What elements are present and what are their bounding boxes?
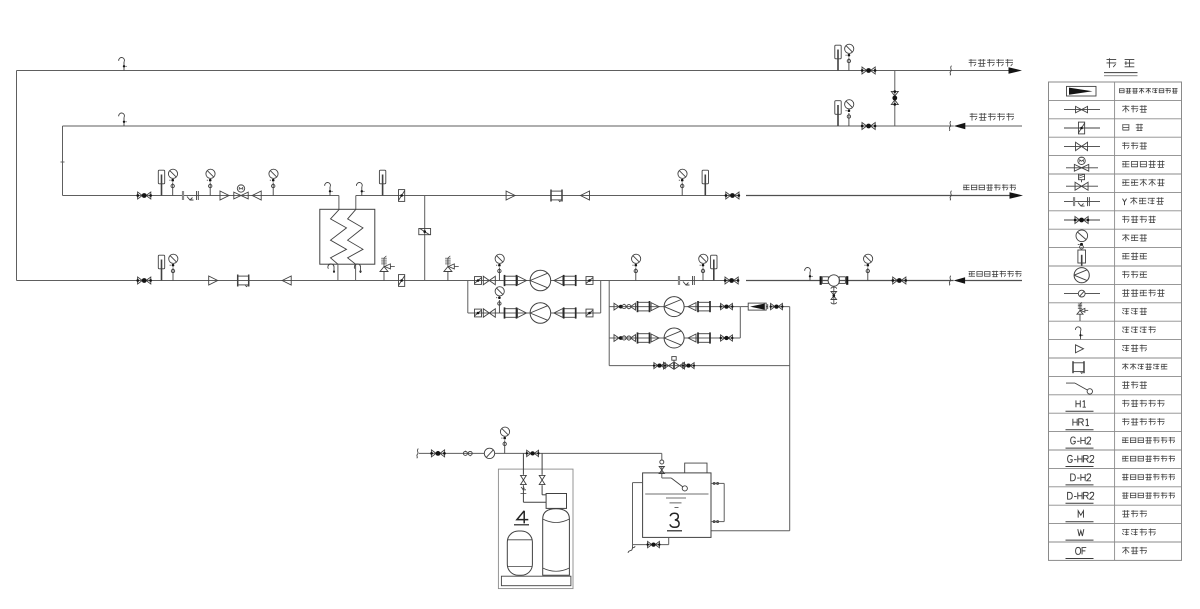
- wire pump group2 suction manifold: [608, 281, 610, 366]
- butterfly valve on bypass: [419, 229, 431, 235]
- safety valve SV2 on L4: [444, 256, 459, 281]
- welded ball valve on tap line: [430, 450, 446, 457]
- wire primary return main (L1): [17, 71, 1009, 281]
- pressure gauge on tap line: [500, 427, 509, 453]
- butterfly valve pump2 inlet: [475, 309, 482, 317]
- tank inlet pipe: [659, 453, 664, 478]
- legend label 超声波流量计: [1122, 363, 1167, 369]
- welded ball valve on L3a: [136, 192, 152, 199]
- safety valve SV1 on L4: [380, 256, 395, 281]
- reducer 2 on L4 left: [282, 276, 291, 285]
- reducer 2 on L3a: [252, 191, 261, 200]
- welded ball valve on L1: [861, 67, 877, 74]
- legend symbol solenoid relief valve: [1066, 174, 1098, 190]
- pump P3 (centrifugal): [664, 297, 684, 317]
- pressure gauge on L4 right: [864, 254, 873, 280]
- legend line code W: [1066, 529, 1094, 540]
- legend label Y型滤污阀: [1123, 197, 1164, 205]
- tank overflow pipe: [633, 483, 643, 545]
- reducer pump1 inlet: [518, 276, 527, 285]
- flow arrow HZ return: [954, 277, 966, 284]
- wire HX bottom pipe 1: [337, 264, 339, 280]
- stop valve on drop1: [521, 475, 527, 484]
- pressure gauge on L4 mid: [632, 254, 641, 280]
- thermometer on L3a: [158, 170, 164, 195]
- legend line code OF: [1066, 547, 1094, 558]
- point marker on L2 riser: [61, 161, 65, 163]
- legend line code M: [1066, 511, 1094, 522]
- butterfly valve on L3b: [399, 190, 405, 202]
- heat exchanger coil 1: [331, 209, 347, 264]
- legend symbol pressure gauge: [1076, 230, 1088, 249]
- unit4 fill drop 2: [542, 453, 546, 494]
- welded ball valve on L4 right: [892, 277, 908, 284]
- flow arrow HZ supply: [1010, 192, 1024, 199]
- reducer 2 on L3b: [581, 191, 590, 200]
- legend symbol motor control valve: [1066, 157, 1098, 171]
- pump P2 (centrifugal): [530, 303, 551, 324]
- pump P4 (centrifugal): [664, 328, 684, 348]
- wire tap water line: [419, 452, 662, 454]
- welded ball valve between tees: [526, 450, 540, 456]
- legend line code G-HR2: [1066, 455, 1095, 466]
- pressure gauge on L3a: [168, 169, 177, 195]
- wire tie line between L1 and L2: [894, 71, 896, 127]
- drain outlet break: [627, 546, 636, 553]
- thermometer on L3b right: [702, 170, 708, 195]
- union pump4 inlet: [622, 335, 631, 341]
- wire pump group2 discharge manifold: [739, 307, 741, 338]
- unit4 fill drop 1: [523, 453, 546, 502]
- legend label 截止阀: [1122, 105, 1147, 112]
- legend symbol float valve: [1066, 383, 1093, 394]
- wire pump group2 bypass: [609, 365, 790, 367]
- legend line code D-H2: [1066, 474, 1094, 485]
- pressure gauge on L4 left: [169, 254, 178, 280]
- stop valve bypass left: [664, 362, 674, 369]
- reducer pump4 outlet: [688, 334, 696, 342]
- air vent on L1: [119, 58, 127, 71]
- wire riser to tank: [711, 307, 790, 531]
- water meter assembly flange right: [839, 276, 847, 285]
- unit4 boundary box: [498, 469, 573, 588]
- legend symbol Y strainer: [1064, 197, 1100, 206]
- stop valve on drop2: [539, 475, 545, 484]
- water meter assembly body: [828, 275, 839, 286]
- pressure gauge pump1: [495, 254, 504, 280]
- reducer pump1 outlet: [554, 276, 563, 285]
- legend label 低区二次网供水: [1122, 474, 1175, 480]
- legend label 蝶 阀: [1122, 124, 1143, 131]
- welded ball valve on L4 left: [136, 277, 152, 284]
- tank water level line: [645, 493, 708, 495]
- butterfly valve on L4: [399, 275, 405, 287]
- welded ball valve pump3 outlet: [720, 303, 734, 309]
- legend label 溢流管: [1122, 547, 1147, 554]
- wire HZ return main (L4): [17, 280, 1023, 282]
- pipe break L1: [950, 66, 952, 76]
- pipe break L3: [950, 191, 952, 201]
- unit4 control box: [546, 494, 566, 509]
- float valve in tank: [662, 478, 688, 491]
- flex joint pump4 outlet: [698, 332, 710, 343]
- air vent on L2: [119, 113, 127, 126]
- reducer on L3b: [506, 191, 515, 200]
- reducer pump3 inlet: [651, 303, 659, 311]
- legend label 螺翼式水表: [1122, 289, 1164, 296]
- drain cock HX pipe 2: [354, 264, 361, 273]
- welded ball valve after meter: [770, 303, 784, 309]
- welded ball valve bypass right: [682, 363, 695, 369]
- reducer pump3 outlet: [688, 303, 696, 311]
- pipe break L4: [949, 276, 951, 286]
- welded ball valve pump4 outlet: [720, 335, 734, 341]
- flex joint pump1 outlet: [564, 275, 576, 286]
- flow arrow primary supply: [954, 123, 966, 130]
- legend label 电磁泄压阀: [1122, 179, 1164, 186]
- legend label 低区二次网回水: [1122, 492, 1175, 498]
- thermometer on L1: [835, 45, 841, 70]
- wire primary supply main (L2): [63, 126, 1023, 196]
- water tank T3 shell: [643, 473, 711, 538]
- flex joint pump4 inlet: [638, 332, 650, 343]
- check valve pump3: [631, 303, 636, 311]
- legend label 压力表: [1122, 234, 1147, 241]
- legend label 温度计: [1122, 253, 1147, 260]
- label 3 on tank: [667, 513, 682, 531]
- Y-type strainer on L3a: [183, 191, 198, 200]
- flex joint pump3 inlet: [638, 301, 650, 312]
- legend line code H1: [1066, 400, 1094, 411]
- welded ball valve on tie line: [891, 90, 898, 106]
- capped tee on bypass: [672, 357, 676, 366]
- legend label 一次网供水: [1122, 400, 1164, 407]
- motorized control valve on L3a: [234, 185, 248, 199]
- water meter assembly flange left: [821, 276, 829, 285]
- legend symbol welded ball valve: [1064, 217, 1100, 224]
- wire HX bypass: [424, 196, 426, 281]
- tank hatch: [685, 463, 707, 473]
- reducer on L3a: [220, 191, 229, 200]
- union pump3 inlet: [622, 304, 631, 310]
- unit4 small vessel: [507, 531, 532, 575]
- legend label 电动调节阀: [1122, 161, 1164, 168]
- tank level mark 3: [675, 506, 679, 508]
- legend label 焊接球阀: [1122, 216, 1156, 223]
- label 一次网回水: [969, 59, 1013, 67]
- reducer pump2 outlet: [554, 309, 563, 318]
- tap water source break: [417, 449, 419, 459]
- strainer glyph on drop1: [521, 487, 527, 494]
- pulse water meter: [748, 303, 768, 310]
- wire meter line: [740, 306, 789, 308]
- drain cock HX pipe 1: [328, 264, 335, 273]
- tank level gauge: [711, 482, 724, 522]
- legend label 安全阀: [1122, 308, 1147, 315]
- butterfly valve pump1 inlet: [475, 277, 482, 285]
- label 4 on unit: [514, 511, 529, 525]
- wire pump1 branch 2: [468, 312, 601, 314]
- legend label 带脉冲输出远传水表: [1119, 88, 1178, 94]
- label 一次网供水: [970, 113, 1014, 121]
- butterfly valve pump2 outlet: [586, 309, 593, 317]
- welded ball valve on L3b right: [725, 192, 741, 199]
- pipe break L2: [949, 121, 951, 131]
- propeller water meter: [484, 448, 494, 458]
- welded ball valve on drain: [647, 541, 661, 547]
- tank drain pipe: [633, 537, 669, 548]
- legend symbol reducer: [1076, 345, 1084, 353]
- pressure gauge on L1: [845, 44, 854, 70]
- unit4 base plinth: [501, 576, 571, 586]
- wire HZ supply left segment (L3a): [63, 196, 339, 210]
- welded ball valve on L2: [861, 123, 877, 130]
- ultrasonic flow meter on L4 left: [238, 275, 249, 287]
- thermometer on L4 mid: [711, 255, 717, 280]
- legend label 异径管: [1122, 345, 1147, 352]
- air vent at HX outlet: [356, 183, 364, 196]
- wire pump group1 discharge manifold: [600, 281, 602, 314]
- legend label 高区二次网回水: [1122, 455, 1175, 461]
- check valve pump2: [483, 309, 495, 318]
- legend line code HR1: [1066, 419, 1094, 430]
- check valve pump4: [631, 334, 636, 342]
- legend symbol propeller meter: [1064, 290, 1100, 297]
- legend line code D-HR2: [1066, 492, 1095, 503]
- legend symbol thermometer: [1078, 250, 1086, 266]
- label 高区二次网供水: [963, 184, 1016, 190]
- thermometer on L3b: [379, 170, 385, 195]
- air vent at HX inlet: [325, 183, 333, 196]
- legend label 浮球阀: [1122, 381, 1147, 388]
- legend label 离心泵: [1122, 271, 1147, 278]
- legend table grid: [1049, 82, 1182, 560]
- tank level mark 2: [670, 502, 682, 504]
- pressure gauge on L3b right: [678, 169, 687, 195]
- ball valve pump3 inlet: [614, 303, 623, 310]
- heat exchanger coil 2: [348, 209, 363, 264]
- wire HZ supply right segment (L3b): [356, 196, 1010, 210]
- reducer on L4 left: [209, 276, 218, 285]
- air vent on L4 right: [805, 268, 813, 281]
- ball valve pump4 inlet: [614, 335, 623, 342]
- legend label 放气装置: [1122, 326, 1156, 333]
- legend symbol check valve: [1064, 142, 1100, 151]
- legend symbol stop valve: [1064, 106, 1100, 112]
- heat exchanger U1 shell: [320, 209, 375, 264]
- thermometer on L2: [835, 101, 841, 126]
- legend label 高区二次网供水: [1122, 437, 1175, 443]
- legend symbol ultrasonic meter: [1073, 361, 1084, 373]
- legend title 图例: [1104, 58, 1138, 76]
- pump P1 (centrifugal): [530, 270, 551, 291]
- legend label 一次网回水: [1122, 418, 1164, 425]
- thermometer on L4 left: [158, 255, 164, 280]
- flow arrow primary return: [1009, 67, 1023, 74]
- legend symbol butterfly valve: [1064, 122, 1100, 134]
- label 高区二次网回水: [969, 271, 1022, 277]
- flex joint pump3 outlet: [698, 301, 710, 312]
- wire pump group1 suction manifold: [467, 281, 469, 314]
- check valve pump1: [483, 276, 495, 285]
- tank level mark 1: [666, 497, 686, 499]
- butterfly valve pump1 outlet: [586, 277, 593, 285]
- legend symbol pump: [1074, 268, 1089, 283]
- reducer pump4 inlet: [651, 334, 659, 342]
- stop valve bypass right: [675, 362, 685, 369]
- ultrasonic flow meter on L3b: [551, 190, 562, 202]
- pressure gauge pump2: [495, 287, 504, 313]
- legend line code G-H2: [1066, 437, 1094, 448]
- legend symbol pulse water meter: [1067, 86, 1097, 96]
- unit4 main vessel: [543, 509, 570, 576]
- welded ball valve on L4 mid: [724, 277, 740, 284]
- water meter drain stem: [831, 286, 837, 304]
- legend symbol air vent: [1075, 327, 1083, 339]
- flex joint pump2 inlet: [505, 307, 517, 318]
- welded ball valve bypass left: [653, 363, 666, 369]
- legend symbol safety valve: [1077, 302, 1088, 321]
- wire pump group2 branch1: [609, 306, 740, 308]
- flex joint pump1 inlet: [505, 275, 517, 286]
- pressure gauge 2 on L3a: [206, 169, 215, 195]
- wire HX bottom pipe 2: [355, 264, 357, 280]
- wire pump group2 branch2: [609, 337, 740, 339]
- flex joint pump2 outlet: [564, 307, 576, 318]
- pressure gauge 3 on L3a: [269, 169, 278, 195]
- legend label 补水管: [1122, 510, 1147, 517]
- union on tap line: [463, 451, 472, 457]
- Y-type strainer on L4: [679, 276, 694, 285]
- pressure gauge on L2: [845, 100, 854, 126]
- legend label 止回阀: [1122, 142, 1147, 149]
- reducer pump2 inlet: [518, 309, 527, 318]
- legend label 自来水管: [1122, 529, 1156, 536]
- pressure gauge on L4 mid2: [699, 254, 708, 280]
